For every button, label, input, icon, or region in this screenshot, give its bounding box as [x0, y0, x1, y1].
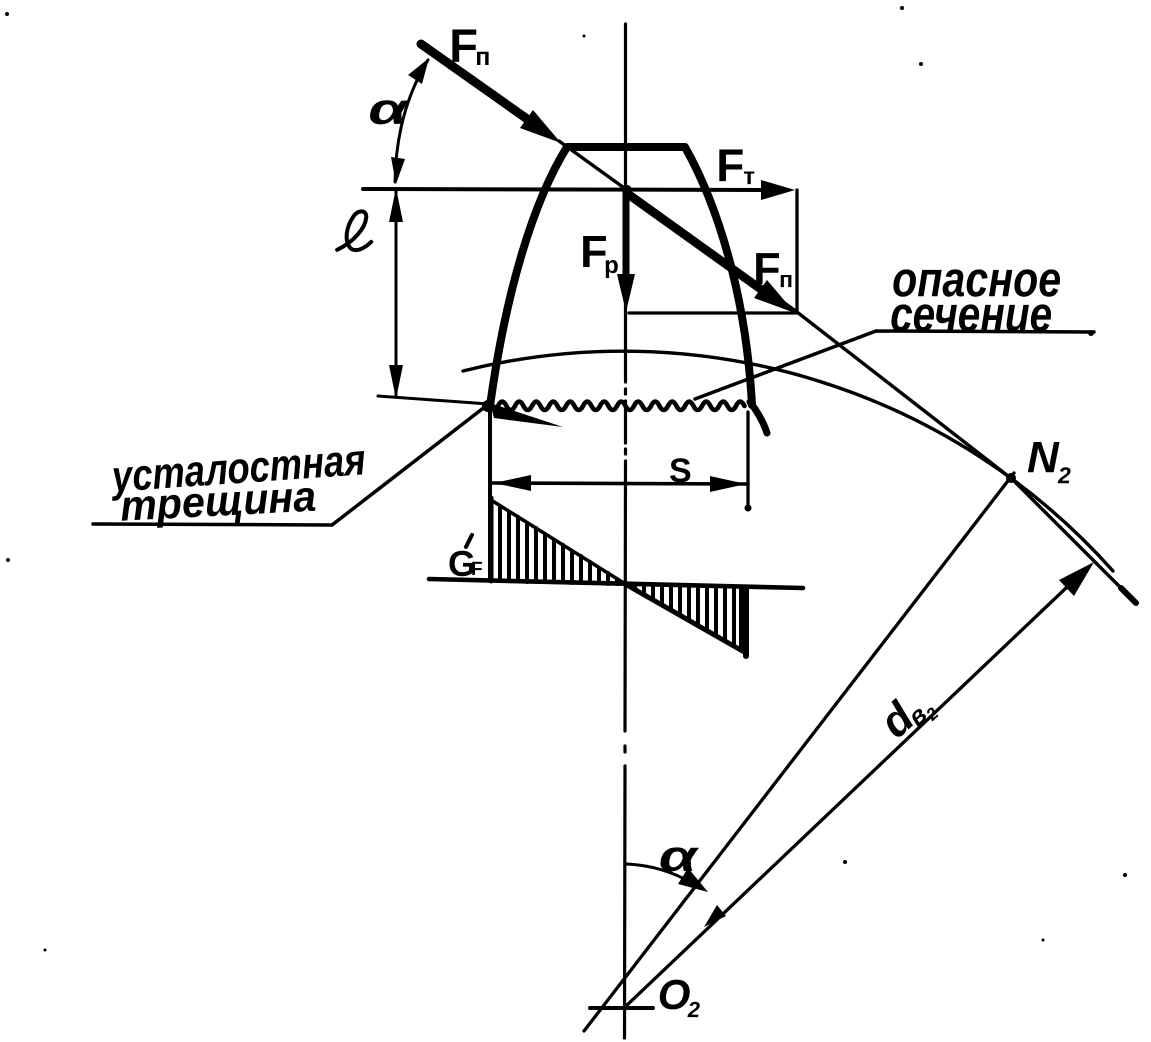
wire base circle arc through N2: [463, 351, 1113, 571]
force Fn lower arrow: [630, 196, 760, 289]
svg-text:сечение: сечение: [890, 286, 1052, 342]
gear tooth outline: [490, 147, 752, 406]
svg-text:F: F: [716, 139, 744, 191]
svg-text:2: 2: [687, 997, 701, 1022]
svg-text:п: п: [779, 266, 793, 292]
svg-text:р: р: [604, 252, 619, 279]
node force application junction: [622, 185, 632, 195]
node tooth root left junction: [482, 400, 494, 412]
wire force parallelogram right side: [795, 190, 798, 313]
wire force parallelogram bottom side: [629, 311, 797, 314]
svg-text:N: N: [1027, 433, 1060, 482]
dimension S line: [492, 483, 748, 484]
force Fr arrow: [623, 192, 630, 278]
angle alpha arc (top): [395, 60, 428, 182]
wire root reference line (bottom of l): [378, 396, 489, 404]
svg-text:трещина: трещина: [119, 473, 317, 531]
node O2 center tick: [590, 1006, 653, 1010]
node N2 junction: [1006, 473, 1016, 483]
wire line of action end stroke: [1121, 588, 1136, 603]
dimension db2 radius line: [625, 570, 1085, 1007]
force Ft arrow: [363, 189, 768, 190]
svg-text:α: α: [659, 832, 700, 881]
svg-text:F: F: [471, 559, 483, 580]
label alpha (top): [368, 84, 410, 134]
angle alpha arc (bottom): [626, 864, 700, 888]
svg-text:α: α: [368, 84, 410, 134]
dimension db2 inner tick arrow: [704, 905, 726, 927]
leader опасное сечение: [695, 331, 1094, 399]
label alpha (bottom): [659, 832, 700, 881]
crack mark right root: [750, 402, 767, 433]
wire line of action (thin, through contact point, parallelogram corner, N2): [559, 141, 1135, 602]
node centerline (gear tooth axis, dash-dot vertical): [625, 24, 626, 1038]
stress diagram axis: [429, 579, 803, 588]
crack wedge at left root: [490, 403, 563, 427]
stress triangle right (hatched): [627, 585, 746, 656]
leader усталостная трещина: [93, 406, 486, 525]
stress triangle left (hatched): [491, 498, 627, 585]
svg-text:O: O: [658, 971, 691, 1018]
wire O2-N2 radius line: [584, 473, 1014, 1031]
wire left extension line: [488, 408, 492, 581]
svg-text:S: S: [669, 452, 692, 490]
fatigue crack wavy line: [498, 402, 745, 411]
force Fn upper arrow: [421, 44, 530, 121]
svg-text:F: F: [753, 243, 781, 294]
svg-text:п: п: [475, 43, 490, 71]
label l (script ell): [337, 211, 371, 250]
svg-text:т: т: [743, 163, 755, 190]
svg-text:2: 2: [1057, 462, 1071, 488]
label db2: [871, 678, 943, 750]
wire right extension line: [746, 412, 749, 508]
dimension l line: [395, 190, 398, 397]
svg-text:F: F: [449, 19, 478, 72]
